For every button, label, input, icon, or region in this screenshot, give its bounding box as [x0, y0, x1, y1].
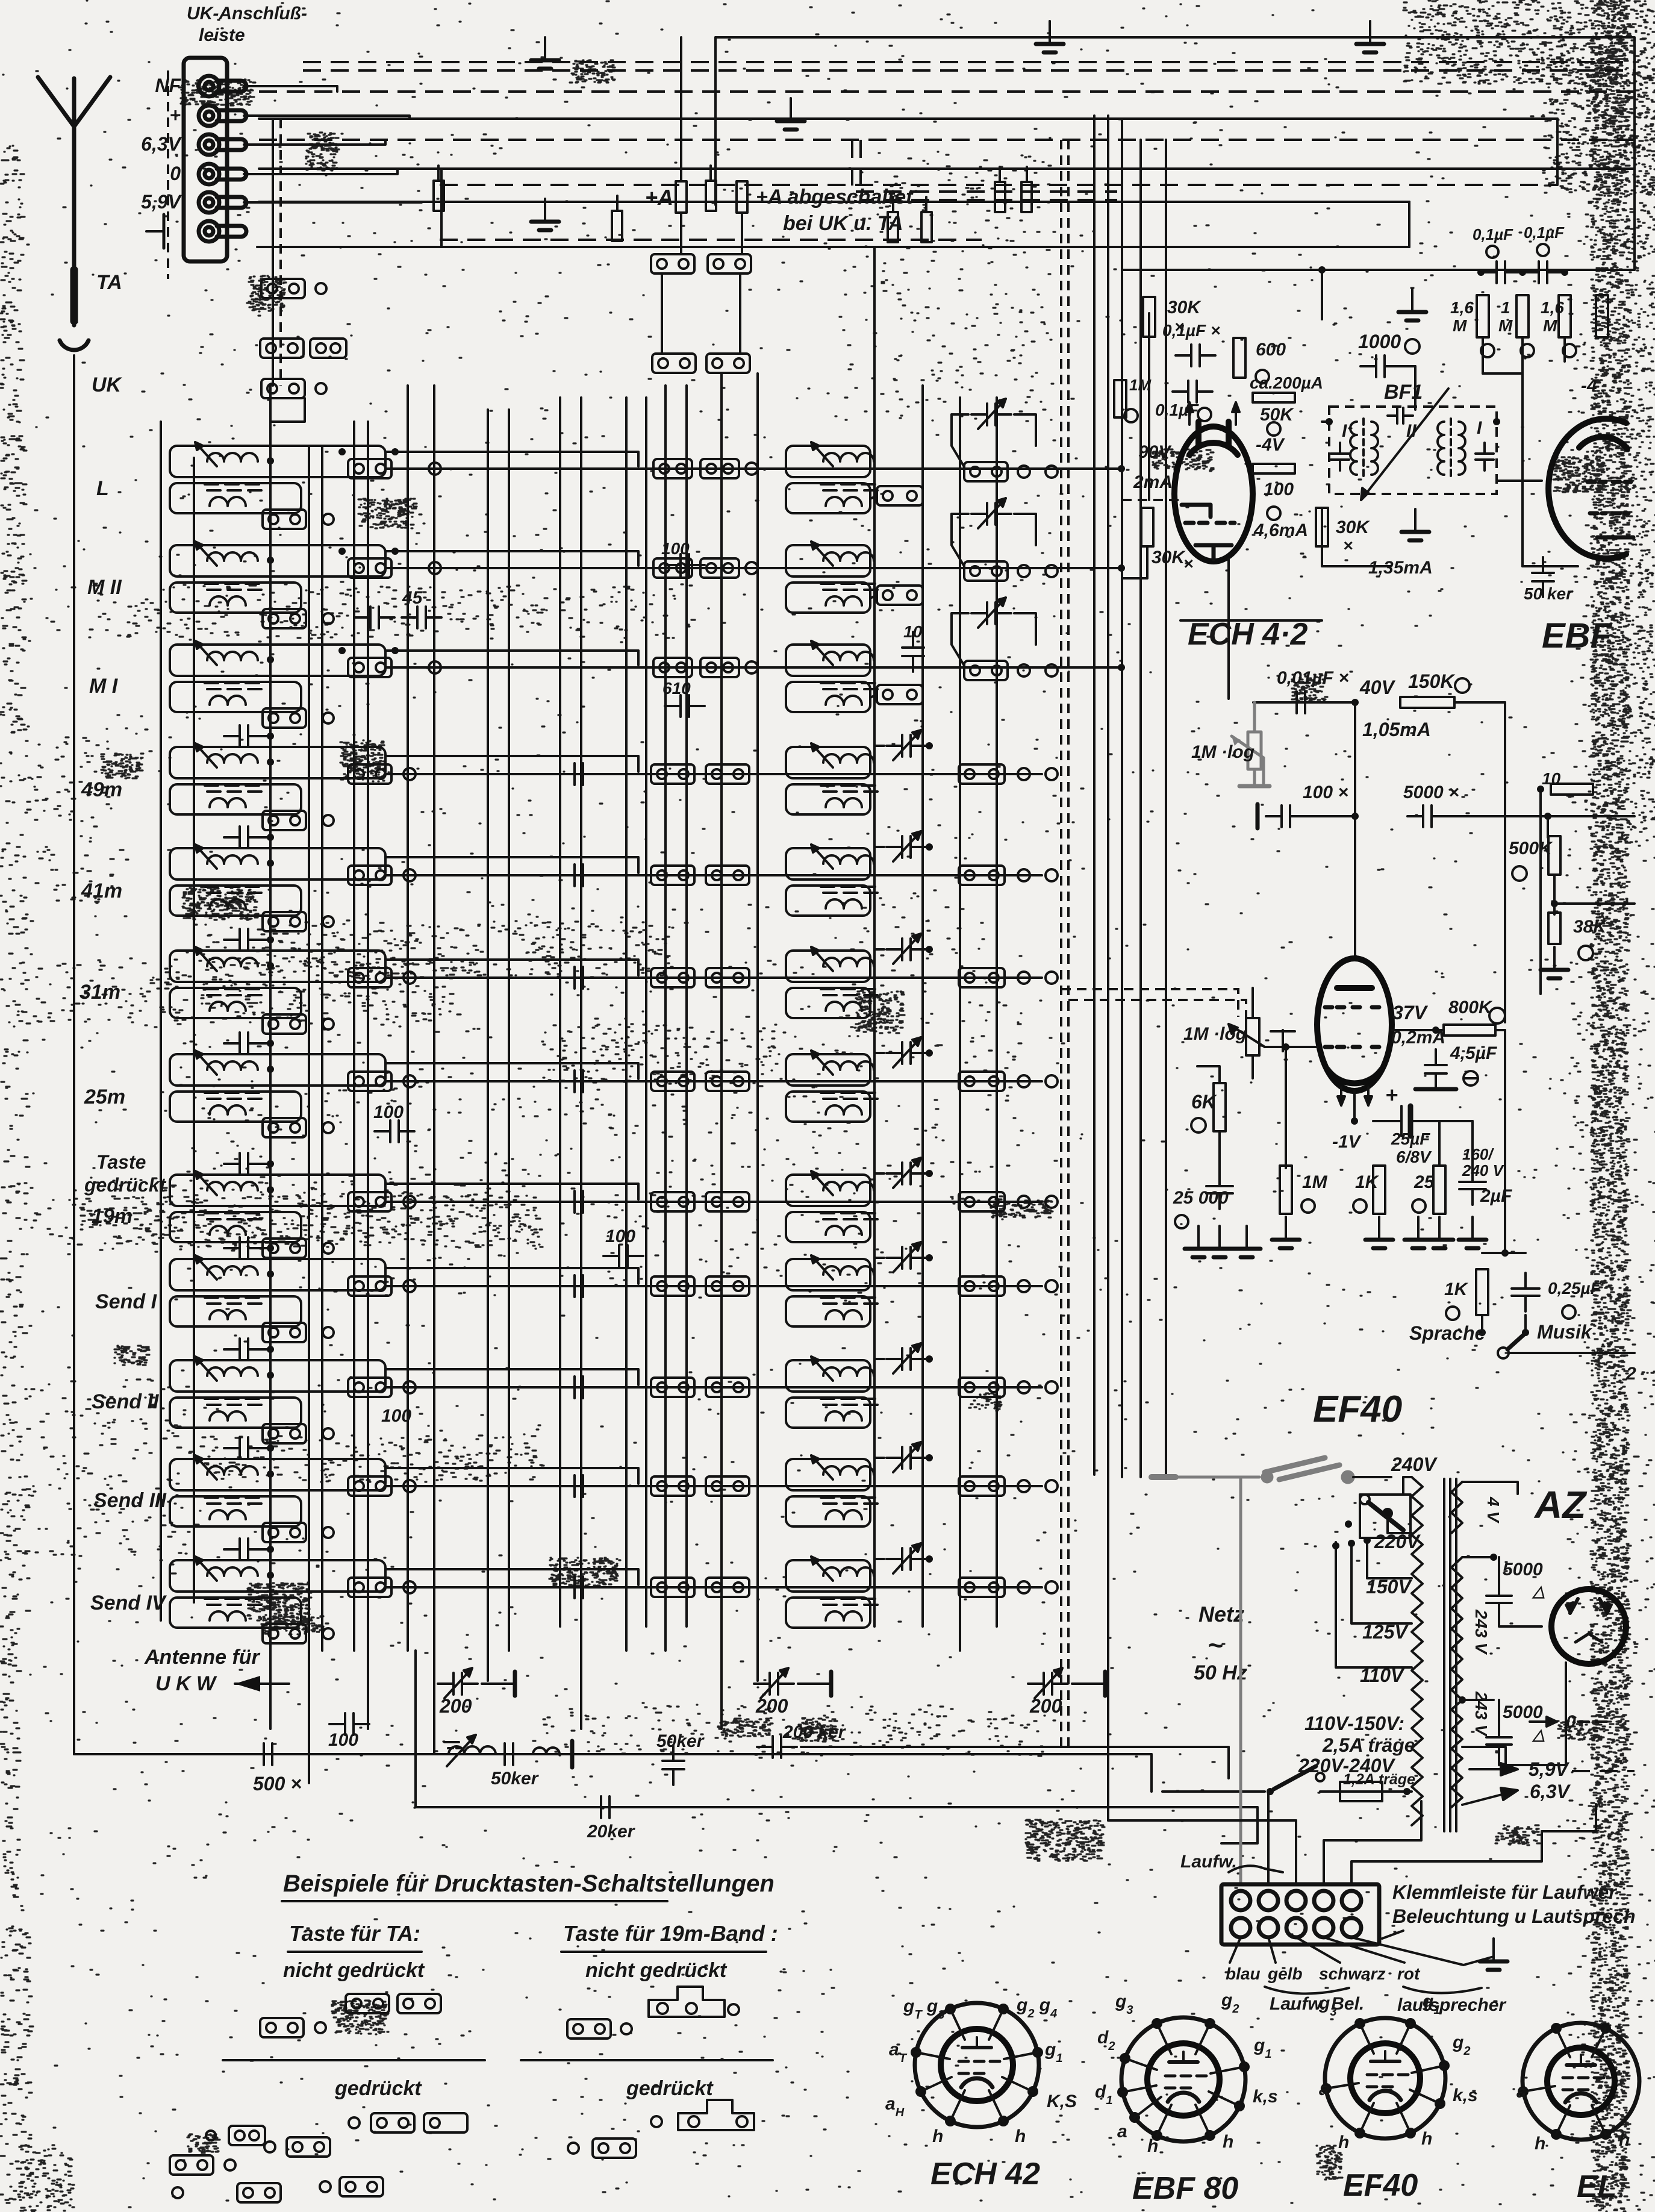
- selector arm: [1360, 1495, 1403, 1530]
- circle 0.1uF: [1198, 408, 1211, 421]
- resistor 6K: [1214, 1083, 1226, 1131]
- L lower link wire: [870, 496, 877, 499]
- svg-text:M: M: [1498, 316, 1513, 335]
- resistor 1M osc: [1114, 380, 1126, 417]
- svg-text:×: ×: [1343, 536, 1353, 555]
- svg-text:100: 100: [605, 1226, 635, 1246]
- TA switch contact: [261, 279, 305, 298]
- band 19m contact circle: [323, 1243, 334, 1254]
- bus drop x453: [272, 119, 274, 386]
- wire agc bottom: [1482, 337, 1484, 373]
- svg-text:g2: g2: [1221, 1990, 1239, 2016]
- M I trimmer cap: [978, 598, 1006, 628]
- Klemmleiste hole bottom 3: [1286, 1918, 1306, 1937]
- matrix column wire 20: [959, 398, 961, 1651]
- example 19m tab2: [567, 2019, 611, 2039]
- cap 5000x: [1407, 805, 1447, 827]
- band Send I secondary coil module: [170, 1296, 301, 1326]
- 41m trimmer cap: [893, 831, 921, 861]
- cap 0.1uF X: [1176, 345, 1215, 366]
- svg-text:EL: EL: [1577, 2169, 1616, 2204]
- band Send IV antenna coil module: [170, 1557, 385, 1605]
- Klemmleiste hole top 5: [1342, 1891, 1361, 1910]
- bus wire H dashed: [440, 184, 1557, 186]
- ECH42 inner rail: [1148, 313, 1150, 500]
- resistor 25: [1433, 1166, 1445, 1214]
- M I top edge extension: [385, 651, 638, 665]
- Klemmleiste hole top 2: [1259, 1891, 1278, 1910]
- 31m trimmer wire: [874, 949, 884, 969]
- bus dropper resistor 1: [434, 181, 444, 211]
- resistor 1M agc: [1516, 295, 1529, 337]
- tone contact musik: [1522, 1329, 1529, 1336]
- svg-text:243 V: 243 V: [1472, 1609, 1491, 1655]
- bus dropper resistor 6: [995, 182, 1005, 212]
- svg-text:lautsprecher: lautsprecher: [1397, 1995, 1507, 2015]
- svg-text:0,1µF ×: 0,1µF ×: [1162, 321, 1220, 340]
- svg-text:0,25µF: 0,25µF: [1548, 1279, 1601, 1298]
- wire pot to grid: [1265, 1046, 1317, 1048]
- wire 200ker: [801, 1746, 1229, 1748]
- 49m row link wire: [385, 773, 1042, 775]
- cap 100 lower: [603, 1245, 643, 1267]
- 49m right circle a: [1018, 768, 1030, 780]
- bus dropper lead 1: [437, 166, 440, 181]
- M I right junction: [1118, 664, 1125, 671]
- band Send II contact circle: [323, 1428, 334, 1439]
- resistor 30K screen: [1143, 297, 1155, 337]
- resistor 50K: [1253, 393, 1295, 402]
- svg-text:h: h: [1619, 2130, 1630, 2150]
- wire agc join: [1483, 372, 1523, 375]
- tone contact sprache: [1479, 1329, 1486, 1336]
- mains switch 2: [1274, 1766, 1324, 1789]
- cap 4.5uF: [1425, 1049, 1447, 1089]
- cathode wire: [1353, 1091, 1356, 1121]
- resistor +A second: [737, 181, 747, 213]
- transformer secondary HV1: [1451, 1557, 1462, 1700]
- 49m trimmer junction: [926, 742, 933, 749]
- wire cath net2: [1471, 1121, 1474, 1172]
- wire 5.9V to bus: [244, 202, 422, 202]
- 31m mid coil lower: [786, 988, 870, 1018]
- wire 5000x: [1442, 815, 1548, 817]
- ground EF40 area 4: [1272, 1217, 1300, 1248]
- cap 0.1uF grid: [1173, 381, 1212, 402]
- det wire2: [1553, 875, 1556, 914]
- band L antenna coil module: [170, 442, 385, 490]
- svg-text:Musik: Musik: [1537, 1321, 1593, 1343]
- Send II top edge extension: [385, 1369, 638, 1385]
- 25m trimmer cap: [893, 1037, 921, 1067]
- +A contact tab 1: [651, 254, 694, 273]
- Send III mid switch 1: [651, 1476, 694, 1496]
- cap 0.01uF: [1281, 692, 1321, 713]
- 19m mid switch 1: [651, 1192, 694, 1211]
- Send II right switch: [959, 1378, 1005, 1397]
- svg-text:d1: d1: [1095, 2082, 1112, 2107]
- svg-text:150K: 150K: [1408, 670, 1456, 692]
- band 49m junction: [267, 758, 274, 766]
- matrix column wire 23: [1067, 140, 1070, 1750]
- svg-text:25 000: 25 000: [1173, 1188, 1229, 1208]
- 25m right switch: [959, 1072, 1005, 1091]
- L top edge extension: [385, 452, 638, 466]
- cap 5000 b: [1486, 1722, 1512, 1760]
- wire Klemm path2: [1267, 1792, 1270, 1884]
- svg-text:UK-Anschluß-: UK-Anschluß-: [187, 4, 307, 23]
- example 19m pressed ring: [651, 2116, 662, 2127]
- circle 50K: [1267, 422, 1280, 436]
- svg-text:4,5µF: 4,5µF: [1450, 1043, 1497, 1063]
- svg-text:Beleuchtung u Lautsprech: Beleuchtung u Lautsprech: [1392, 1905, 1636, 1927]
- ground EF40 area 3: [1233, 1226, 1261, 1257]
- corner ring 4: [206, 2131, 216, 2140]
- svg-text:600: 600: [1256, 340, 1286, 360]
- cap IF b: [1523, 261, 1563, 283]
- cap 5000 a: [1486, 1580, 1512, 1619]
- svg-text:nicht gedrückt: nicht gedrückt: [585, 1959, 728, 1982]
- corner tab 4: [229, 2126, 265, 2145]
- svg-text:5000 ×: 5000 ×: [1403, 783, 1459, 802]
- 31m series cap: [224, 929, 264, 951]
- tap dot 110: [1332, 1542, 1339, 1549]
- cap 200ker: [757, 1736, 797, 1758]
- EBF80 cathode wire: [1523, 565, 1578, 567]
- M II row link wire: [385, 567, 1119, 569]
- svg-text:-4V: -4V: [1256, 435, 1286, 455]
- junction ECH42 top: [1318, 266, 1326, 273]
- 31m row link wire: [385, 976, 1042, 979]
- primary top lead: [1403, 1477, 1412, 1495]
- 49m row cap: [559, 763, 599, 785]
- band Send III secondary coil module: [170, 1496, 301, 1526]
- circle agc b: [1521, 344, 1534, 357]
- ground EF40 area 2: [1206, 1226, 1233, 1257]
- circle cap b: [1537, 244, 1549, 256]
- band L switch contact left: [263, 510, 306, 529]
- svg-text:1,35mA: 1,35mA: [1368, 558, 1433, 578]
- EBF80 rail 2: [1521, 337, 1524, 373]
- resistor 30K cathode: [1141, 508, 1153, 546]
- Send I mid coil module: [786, 1255, 877, 1304]
- bus wire J dashed: [440, 239, 982, 241]
- svg-text:20ker: 20ker: [587, 1822, 636, 1842]
- 31m trimmer cap: [893, 934, 921, 964]
- M I trimmer right wire: [1014, 613, 1036, 645]
- bus dropper lead 4: [892, 197, 894, 212]
- ground top x1743: [1036, 21, 1064, 52]
- Send III trimmer junction: [926, 1454, 933, 1461]
- wire ECH42 anode to meter: [1322, 508, 1391, 566]
- svg-text:BF1: BF1: [1384, 381, 1423, 404]
- fuse: [1340, 1782, 1382, 1801]
- tap wire 125V: [1351, 1542, 1412, 1623]
- svg-text:g2: g2: [1452, 2032, 1470, 2058]
- BF1 winding 1: [1350, 419, 1378, 476]
- corner tab 3: [340, 2177, 383, 2196]
- wire NF to bus: [244, 86, 337, 92]
- M II right circle b: [1046, 565, 1058, 577]
- band 41m contact circle: [323, 916, 334, 927]
- band Send II junction: [267, 1372, 274, 1379]
- trimmer 2 lead: [798, 1682, 831, 1685]
- leader rot: [1324, 1937, 1404, 1963]
- band Send IV secondary coil module: [170, 1598, 301, 1628]
- L mid switch b: [700, 459, 739, 478]
- M I left switch: [348, 658, 391, 677]
- band 49m switch contact left: [263, 811, 306, 830]
- Send IV mid switch 1: [651, 1578, 694, 1597]
- Send II series cap junction: [267, 1346, 274, 1353]
- Send III right circle b: [1046, 1480, 1058, 1492]
- corner ring 2: [172, 2187, 183, 2198]
- 31m mid switch 2: [706, 968, 749, 987]
- M I mid coil module: [786, 641, 877, 689]
- svg-text:1K: 1K: [1355, 1172, 1380, 1192]
- EF40 anode rail: [1454, 701, 1505, 704]
- cap 50ker v: [662, 1745, 684, 1785]
- 19m right circle b: [1046, 1196, 1058, 1208]
- Send II mid switch 2: [706, 1378, 749, 1397]
- svg-text:25µF: 25µF: [1391, 1129, 1430, 1148]
- resistor 38K: [1548, 913, 1560, 944]
- svg-text:6,3V: 6,3V: [1530, 1781, 1571, 1802]
- junction 5000x: [1544, 813, 1551, 820]
- tube pinout EBF80: [1121, 2017, 1245, 2142]
- 19m mid switch 2: [706, 1192, 749, 1211]
- BF1 tune cap left: [1331, 443, 1349, 470]
- circle 25000: [1175, 1215, 1188, 1228]
- matrix column wire 27: [1139, 140, 1142, 1477]
- bus dropper resistor 3: [706, 181, 716, 211]
- svg-text:Laufw.: Laufw.: [1180, 1852, 1237, 1872]
- M I mid coil lower: [786, 682, 870, 712]
- svg-text:g3: g3: [1115, 1992, 1133, 2017]
- 19m mid coil lower: [786, 1212, 870, 1242]
- matrix column wire 9: [508, 410, 510, 1651]
- Klemmleiste pointer: [1382, 1931, 1403, 1939]
- bus dropper resistor 4: [888, 212, 898, 242]
- svg-text:243 V: 243 V: [1472, 1691, 1491, 1737]
- svg-text:EF40: EF40: [1343, 2168, 1418, 2203]
- wire Klemm path3b: [1108, 1819, 1296, 1822]
- 49m mid switch 2: [706, 764, 749, 784]
- 19m left switch: [348, 1192, 391, 1211]
- L row link wire: [385, 467, 1119, 470]
- circle 1M grid: [1301, 1199, 1315, 1213]
- 31m trimmer junction: [926, 946, 933, 953]
- svg-text:200 ker: 200 ker: [782, 1722, 847, 1742]
- bottom wire to mains: [1150, 1754, 1153, 1792]
- svg-text:M: M: [1453, 316, 1467, 335]
- M I link dot a: [338, 647, 346, 654]
- L lower link tab: [877, 486, 923, 505]
- 49m trimmer cap: [893, 730, 921, 760]
- bus bundle to ECH42 b: [861, 140, 1117, 200]
- divider 19m: [521, 2059, 773, 2061]
- band 19m switch contact left: [263, 1239, 306, 1258]
- band M II antenna coil module: [170, 542, 385, 590]
- 25m series cap wire: [259, 1042, 270, 1045]
- svg-text:50ker: 50ker: [656, 1731, 705, 1751]
- Send IV top edge extension: [385, 1569, 638, 1585]
- band 19m junction: [267, 1186, 274, 1193]
- stub 50ker: [570, 1741, 575, 1767]
- svg-text:bei UK u. TA: bei UK u. TA: [783, 212, 903, 235]
- tap wire 150V: [1367, 1538, 1412, 1578]
- svg-text:+: +: [1385, 1083, 1398, 1107]
- 41m trimmer wire: [874, 847, 884, 866]
- Send III trimmer wire: [874, 1458, 884, 1477]
- svg-text:Send II: Send II: [92, 1390, 160, 1413]
- bus dropper lead 7: [1026, 167, 1028, 182]
- resistor 800K: [1444, 1025, 1495, 1036]
- example 19m ring: [728, 2004, 739, 2015]
- M II mid switch: [653, 558, 692, 578]
- 41m series cap junction: [267, 834, 274, 841]
- svg-text:Netz: Netz: [1198, 1602, 1244, 1626]
- Send II mid coil lower: [786, 1398, 870, 1428]
- example TA pressed ring a: [264, 2142, 275, 2152]
- tap wire 220V: [1388, 1518, 1412, 1533]
- svg-text:100 ×: 100 ×: [1303, 783, 1348, 802]
- svg-text:1M: 1M: [1129, 376, 1152, 394]
- leader blau: [1230, 1937, 1241, 1963]
- terminal 6,3V: [199, 134, 246, 155]
- bus wire K solid: [257, 246, 1409, 248]
- bus dropper resistor 2: [612, 211, 622, 241]
- Klemmleiste hole top 4: [1314, 1891, 1333, 1910]
- det junction: [1537, 786, 1544, 793]
- svg-text:200: 200: [1029, 1695, 1062, 1717]
- terminal 5,9V: [199, 192, 246, 213]
- svg-text:g1: g1: [1253, 2035, 1271, 2061]
- volume feed wire dashed a: [1061, 989, 1238, 1017]
- Send I left switch: [348, 1276, 391, 1296]
- svg-text:240 V: 240 V: [1462, 1161, 1505, 1179]
- M II mid coil module: [786, 542, 877, 590]
- svg-text:Send IV: Send IV: [90, 1592, 167, 1614]
- 19m trimmer wire: [874, 1173, 884, 1193]
- ECH42 bottom rail: [1180, 619, 1322, 622]
- bottom wire main: [74, 1753, 1152, 1755]
- fuse wire b: [1382, 1790, 1412, 1793]
- leader lautsprecher: [1351, 1937, 1494, 1965]
- 19m right switch: [959, 1192, 1005, 1211]
- L right switch tab: [964, 462, 1008, 481]
- circle cap a: [1486, 246, 1498, 258]
- 49m series cap junction: [267, 733, 274, 740]
- band L junction: [267, 457, 274, 464]
- terminal strip body: [184, 58, 227, 261]
- tone network wires: [1482, 1252, 1526, 1254]
- trimmer 3 lead: [1072, 1682, 1105, 1685]
- BF1 junction R: [1493, 418, 1500, 425]
- transformer primary winding: [1412, 1477, 1423, 1825]
- 41m series cap wire: [259, 836, 270, 839]
- band 25m contact circle: [323, 1122, 334, 1133]
- svg-text:200: 200: [439, 1695, 472, 1717]
- 49m series cap wire: [259, 735, 270, 737]
- svg-text:49m: 49m: [81, 778, 122, 801]
- resistor 100 inj: [1253, 464, 1295, 473]
- svg-text:M II: M II: [87, 576, 122, 599]
- det res top: [1551, 784, 1593, 795]
- trimmer 1 lead: [482, 1682, 515, 1685]
- band 49m contact circle: [323, 815, 334, 826]
- svg-text:h: h: [932, 2126, 943, 2146]
- junction 40V: [1351, 699, 1359, 706]
- svg-text:6/8V: 6/8V: [1396, 1148, 1432, 1166]
- Send III mid coil module: [786, 1455, 877, 1504]
- matrix column wire 13: [645, 398, 647, 1626]
- BF1 ground: [1401, 509, 1429, 540]
- svg-text:100: 100: [1264, 480, 1294, 499]
- wire anode: [1392, 1029, 1444, 1031]
- junction IF b: [1519, 269, 1526, 276]
- resistor 150K: [1400, 697, 1454, 708]
- matrix column wire 18: [873, 247, 876, 1626]
- transformer secondary HV2: [1451, 1700, 1462, 1807]
- cap IF a: [1481, 261, 1521, 283]
- example TA pressed ring b: [349, 2117, 360, 2128]
- AZ anode wire: [1499, 1663, 1566, 1765]
- svg-text:610: 610: [662, 679, 691, 698]
- leader schwarz: [1296, 1937, 1340, 1963]
- band M I junction: [267, 656, 274, 663]
- Send I top edge extension: [385, 1268, 638, 1284]
- svg-text:M I: M I: [89, 675, 119, 698]
- wire 20ker drop: [414, 1651, 417, 1807]
- sec 4V leads: [1462, 1482, 1518, 1494]
- svg-text:△: △: [1532, 1582, 1545, 1600]
- BF1 top cap: [1388, 408, 1413, 423]
- terminal +: [199, 105, 246, 126]
- example 19m stepped tab: [649, 1987, 725, 2017]
- Send IV trimmer cap: [893, 1543, 921, 1573]
- bus dropper resistor 5: [921, 212, 932, 242]
- 41m row link wire: [385, 874, 1042, 876]
- HV top dot: [1490, 1554, 1497, 1561]
- svg-text:L: L: [96, 477, 109, 500]
- Send III right circle a: [1018, 1480, 1030, 1492]
- svg-text:1,2A träge: 1,2A träge: [1343, 1771, 1415, 1788]
- 49m left switch: [348, 764, 391, 784]
- svg-text:a: a: [1117, 2122, 1127, 2142]
- 19m mid coil module: [786, 1171, 877, 1219]
- cap 45 b: [402, 607, 441, 628]
- svg-text:1,6: 1,6: [1541, 298, 1564, 317]
- svg-text:-1V: -1V: [1332, 1132, 1362, 1152]
- circle 0.25uF: [1562, 1305, 1576, 1319]
- bus wire C dashed: [303, 69, 1633, 72]
- wire agc down: [1521, 373, 1524, 566]
- M II left switch: [348, 558, 391, 578]
- Send III right switch: [959, 1476, 1005, 1496]
- M II right junction: [1118, 564, 1125, 572]
- UK contact circle: [316, 383, 326, 394]
- pot 1M+log lower: [1246, 988, 1259, 1078]
- antenna: [38, 77, 110, 350]
- resistor 500K det: [1548, 836, 1560, 875]
- bus dropper resistor 7: [1021, 182, 1032, 212]
- svg-text:0,1µF: 0,1µF: [1473, 225, 1513, 243]
- 25m row link wire: [385, 1080, 1042, 1083]
- svg-text:Taste: Taste: [96, 1151, 146, 1173]
- matrix column wire 3: [321, 446, 323, 1651]
- wire 6.3V to bus: [244, 140, 385, 145]
